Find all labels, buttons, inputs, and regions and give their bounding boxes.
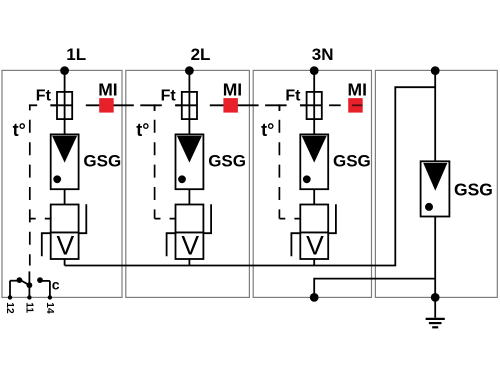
- svg-text:14: 14: [44, 302, 55, 314]
- svg-text:MI: MI: [223, 80, 242, 100]
- svg-text:1L: 1L: [66, 45, 86, 64]
- svg-text:12: 12: [4, 302, 15, 314]
- svg-text:MI: MI: [98, 80, 117, 100]
- svg-text:3N: 3N: [312, 45, 334, 64]
- svg-text:GSG: GSG: [83, 152, 121, 171]
- svg-text:t°: t°: [136, 120, 149, 140]
- svg-text:GSG: GSG: [454, 180, 493, 200]
- svg-text:V: V: [306, 230, 324, 260]
- svg-text:2L: 2L: [191, 45, 211, 64]
- svg-text:Ft: Ft: [285, 87, 301, 104]
- svg-text:GSG: GSG: [208, 152, 246, 171]
- svg-text:Ft: Ft: [161, 87, 177, 104]
- svg-text:t°: t°: [13, 120, 26, 140]
- svg-text:MI: MI: [348, 80, 367, 100]
- svg-text:GSG: GSG: [333, 152, 371, 171]
- svg-text:V: V: [181, 230, 199, 260]
- svg-text:t°: t°: [261, 120, 274, 140]
- svg-text:V: V: [57, 230, 75, 260]
- svg-text:Ft: Ft: [36, 87, 52, 104]
- svg-text:11: 11: [24, 302, 35, 313]
- svg-text:c: c: [52, 276, 60, 292]
